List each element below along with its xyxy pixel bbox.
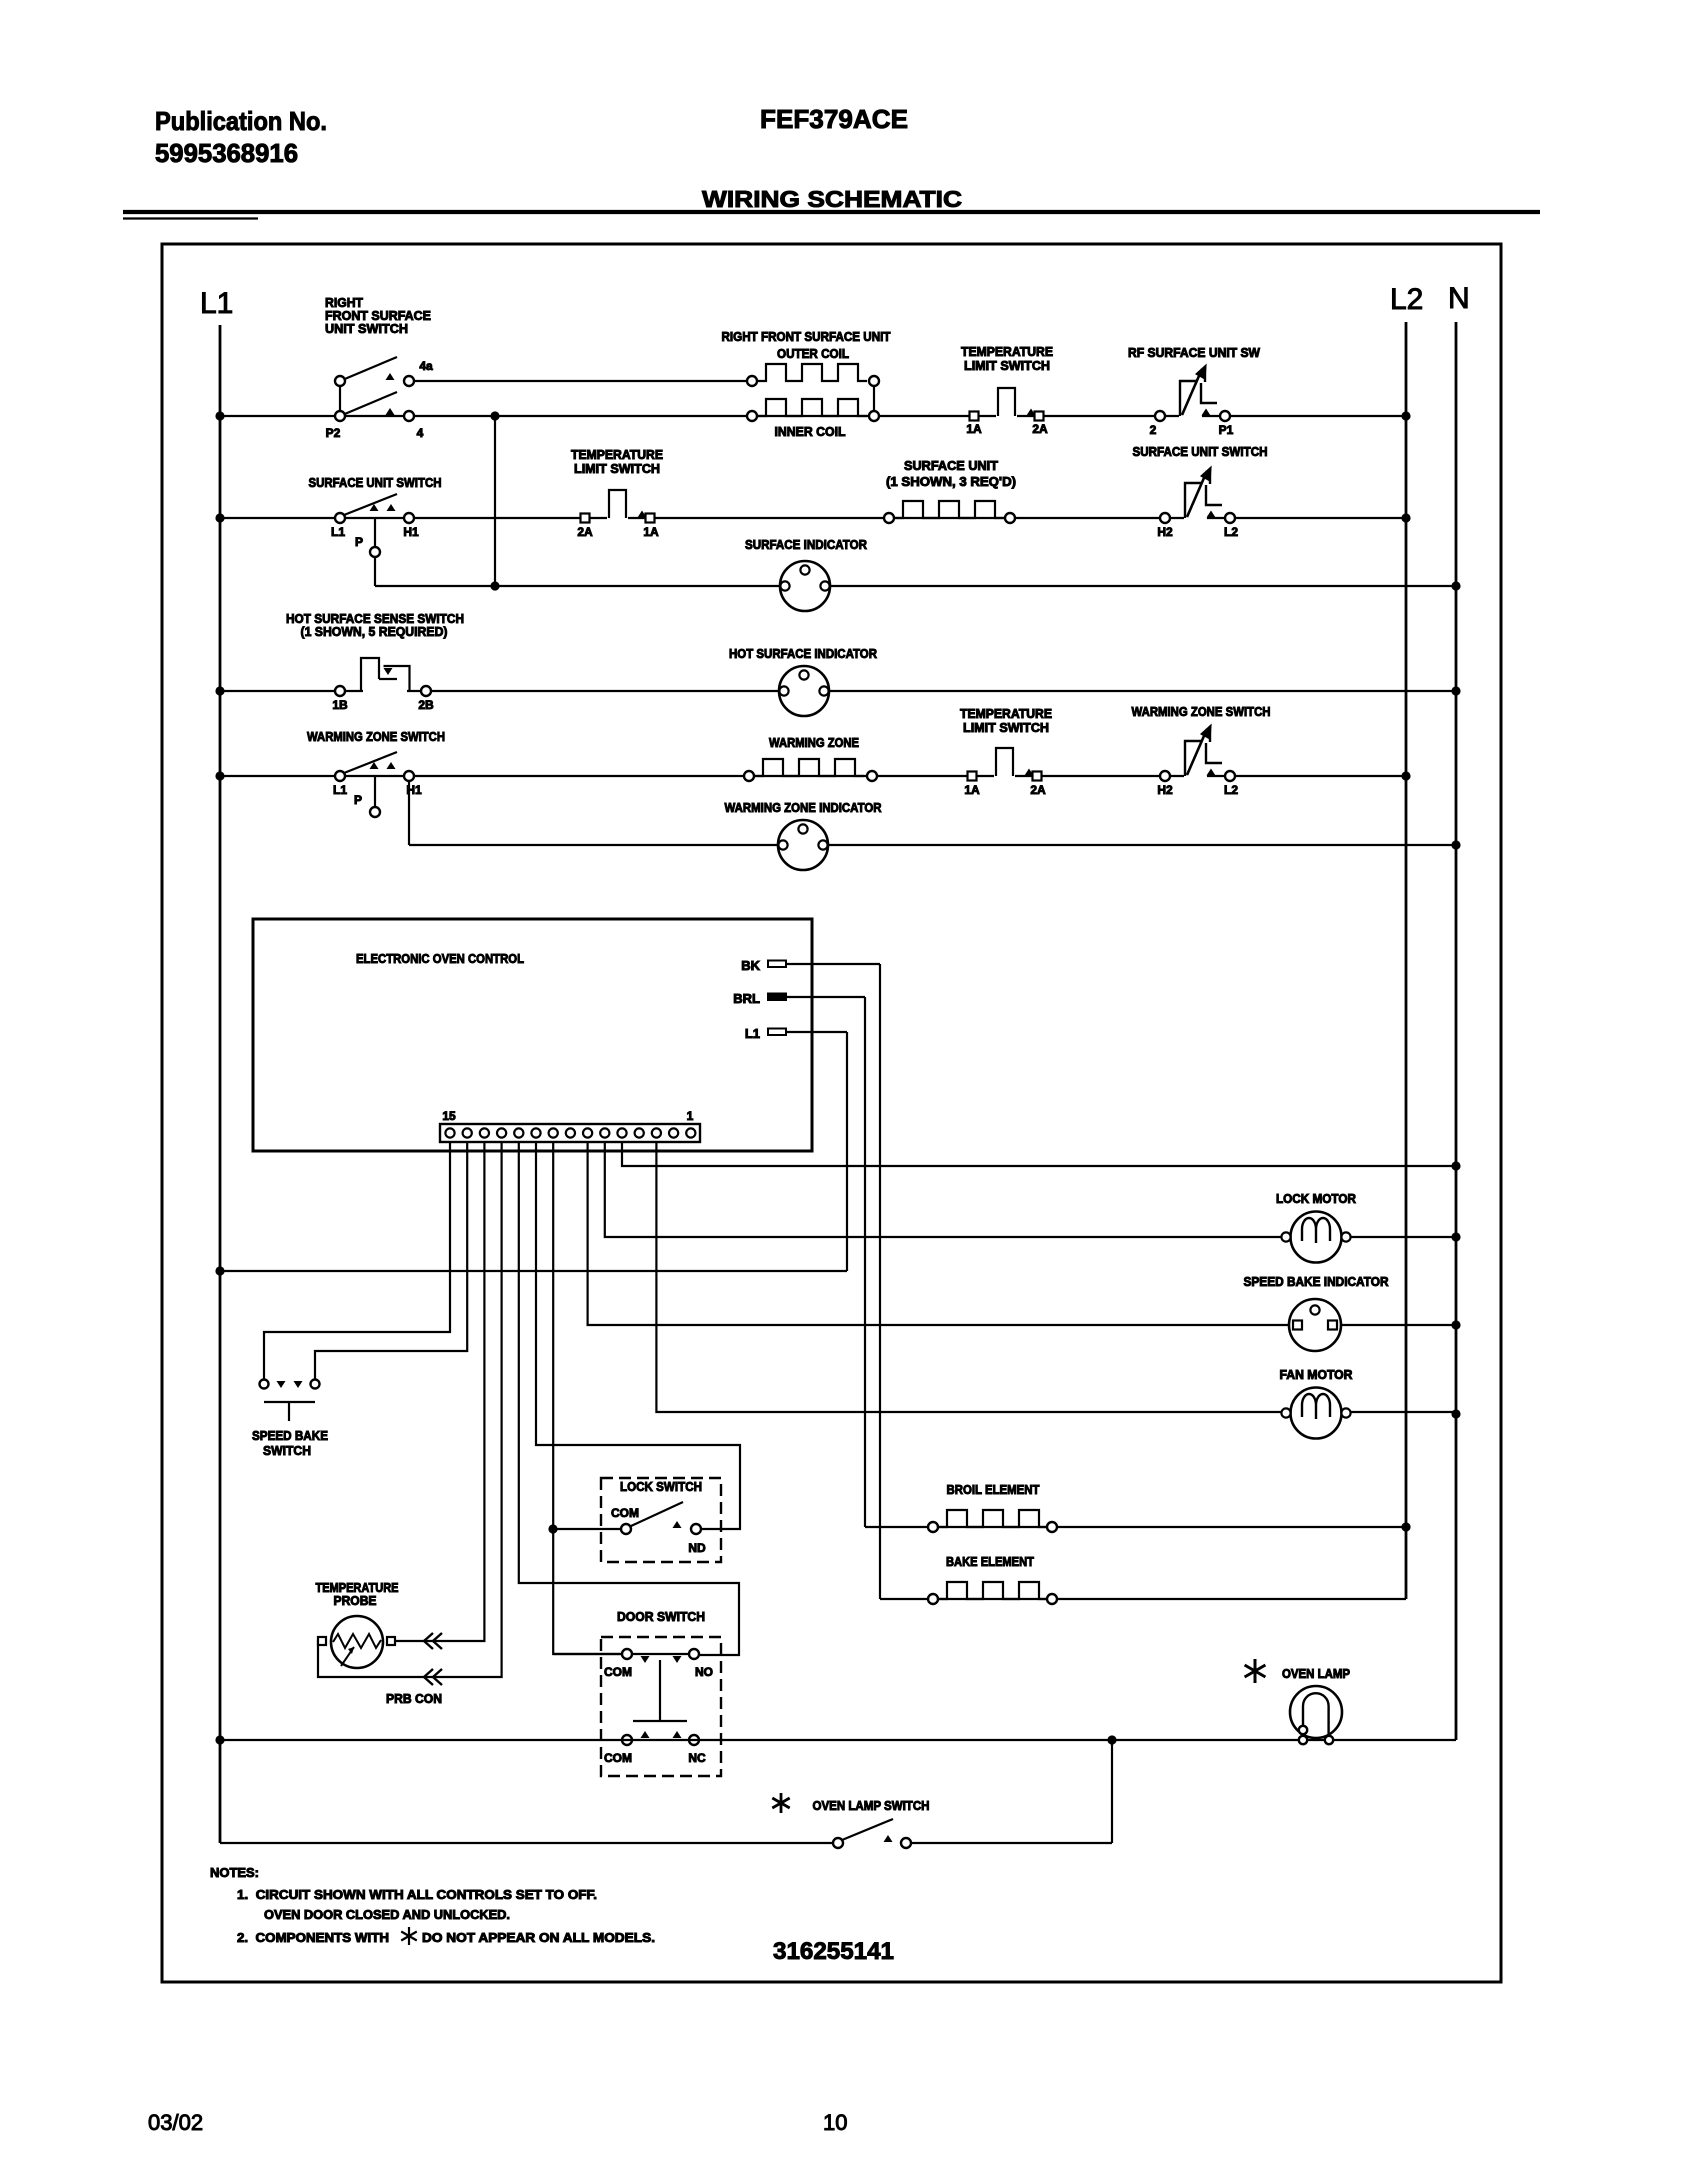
wire pin9 to lock switch COM and door switch COM <box>553 1142 622 1654</box>
svg-text:FAN MOTOR: FAN MOTOR <box>1280 1368 1353 1382</box>
svg-text:L2: L2 <box>1390 283 1423 316</box>
wire outer coil to inner coil right side <box>873 381 875 416</box>
svg-text:2A: 2A <box>1032 422 1048 436</box>
svg-text:L2: L2 <box>1224 783 1238 797</box>
svg-text:OVEN DOOR CLOSED AND UNLOCKED.: OVEN DOOR CLOSED AND UNLOCKED. <box>264 1907 510 1922</box>
junction row3 at L2 <box>1401 513 1410 522</box>
svg-text:2B: 2B <box>418 698 434 712</box>
resistor temperature probe <box>331 1616 383 1668</box>
svg-text:OUTER COIL: OUTER COIL <box>777 347 849 361</box>
heater surface unit coil <box>894 501 1004 518</box>
svg-text:SWITCH: SWITCH <box>263 1443 311 1458</box>
svg-text:1B: 1B <box>332 698 348 712</box>
junction row2 at L2 <box>1401 411 1410 420</box>
svg-text:P: P <box>355 535 363 549</box>
wire row1 4a contact to outer coil <box>409 380 752 382</box>
svg-text:SURFACE UNIT SWITCH: SURFACE UNIT SWITCH <box>309 475 442 490</box>
svg-text:DOOR SWITCH: DOOR SWITCH <box>617 1609 705 1624</box>
node L2 rail <box>1405 322 1408 1599</box>
svg-text:(1 SHOWN, 3 REQ'D): (1 SHOWN, 3 REQ'D) <box>886 475 1016 489</box>
svg-text:L1: L1 <box>333 783 347 797</box>
svg-text:LIMIT SWITCH: LIMIT SWITCH <box>964 359 1050 373</box>
svg-text:L2: L2 <box>1224 525 1238 539</box>
switch oven lamp switch <box>220 1842 833 1844</box>
switch surface unit switch contacts H2 L2 <box>1184 467 1222 521</box>
svg-text:P: P <box>354 793 362 807</box>
svg-text:TEMPERATURE: TEMPERATURE <box>571 448 663 462</box>
wire pin7 to speed bake indicator row <box>588 1142 1456 1325</box>
svg-text:4: 4 <box>417 426 424 440</box>
svg-text:COM: COM <box>611 1506 639 1520</box>
connector chevrons probe leads <box>424 1633 433 1649</box>
svg-text:H2: H2 <box>1157 783 1173 797</box>
svg-text:316255141: 316255141 <box>773 1938 894 1965</box>
motor lock motor <box>1281 1212 1350 1263</box>
svg-text:1A: 1A <box>964 783 980 797</box>
svg-text:NO: NO <box>695 1665 713 1679</box>
svg-text:LIMIT SWITCH: LIMIT SWITCH <box>574 462 660 476</box>
wire L1 terminal to L1 rail <box>786 1031 847 1033</box>
wire bottom row L1 to N oven lamp row <box>220 1739 1456 1741</box>
svg-text:10: 10 <box>823 2110 847 2135</box>
wire surface indicator row from P contact <box>374 557 376 586</box>
header rule <box>123 210 1540 214</box>
svg-text:LIMIT SWITCH: LIMIT SWITCH <box>963 721 1049 735</box>
wire pin12 to temperature probe return loop <box>318 1142 502 1677</box>
svg-text:03/02: 03/02 <box>148 2110 203 2135</box>
svg-text:RF SURFACE UNIT SW: RF SURFACE UNIT SW <box>1128 346 1260 360</box>
svg-text:BK: BK <box>741 958 760 973</box>
svg-text:FEF379ACE: FEF379ACE <box>760 104 908 134</box>
svg-text:2. COMPONENTS WITH: 2. COMPONENTS WITH <box>237 1930 389 1945</box>
svg-text:L1: L1 <box>331 525 345 539</box>
svg-text:TEMPERATURE: TEMPERATURE <box>961 345 1053 359</box>
diagram border frame <box>162 244 1501 1982</box>
svg-text:P2: P2 <box>326 426 341 440</box>
svg-text:SURFACE UNIT: SURFACE UNIT <box>904 459 998 473</box>
wire pin6 to lock motor row <box>605 1142 1456 1237</box>
svg-text:NOTES:: NOTES: <box>210 1865 259 1880</box>
wire row4 L1 to N hot surface row <box>220 690 1456 692</box>
wire pin5 to neutral rail <box>622 1142 1456 1166</box>
svg-text:TEMPERATURE: TEMPERATURE <box>960 707 1052 721</box>
junction row2 to surface indicator feeder <box>490 411 499 420</box>
wire row2 L1 to L2 <box>220 415 1406 417</box>
svg-text:WARMING ZONE SWITCH: WARMING ZONE SWITCH <box>1132 705 1271 719</box>
svg-text:SPEED BAKE: SPEED BAKE <box>252 1428 328 1443</box>
svg-text:5995368916: 5995368916 <box>155 138 298 168</box>
svg-text:SURFACE INDICATOR: SURFACE INDICATOR <box>745 538 867 552</box>
svg-text:COM: COM <box>604 1751 632 1765</box>
switch speed bake switch <box>260 1380 269 1389</box>
svg-text:TEMPERATURE: TEMPERATURE <box>316 1581 399 1595</box>
svg-text:LOCK SWITCH: LOCK SWITCH <box>620 1479 702 1494</box>
svg-text:SPEED BAKE INDICATOR: SPEED BAKE INDICATOR <box>1244 1275 1389 1289</box>
wire pin10 to lock switch NO <box>536 1142 740 1529</box>
junction surface indicator row at N <box>1451 581 1460 590</box>
svg-text:N: N <box>1448 282 1470 315</box>
svg-text:L1: L1 <box>745 1026 760 1041</box>
svg-text:H2: H2 <box>1157 525 1173 539</box>
junction warming zone indicator row at N <box>1451 840 1460 849</box>
door switch mechanical link <box>659 1660 661 1721</box>
svg-text:1: 1 <box>687 1109 694 1123</box>
wire BRL to broil element <box>786 996 865 998</box>
node N rail <box>1455 322 1458 1740</box>
asterisk marker oven lamp <box>1245 1659 1266 1683</box>
lamp oven lamp <box>1290 1686 1342 1738</box>
wire pin3 to fan motor row <box>656 1142 1456 1412</box>
switch RF surface unit sw contacts 2 P1 <box>1179 365 1217 419</box>
junction broil row at L2 <box>1401 1522 1410 1531</box>
heater inner coil <box>757 399 867 416</box>
motor fan motor <box>1281 1388 1350 1439</box>
svg-text:P1: P1 <box>1219 423 1234 437</box>
svg-text:ELECTRONIC OVEN CONTROL: ELECTRONIC OVEN CONTROL <box>356 951 524 966</box>
svg-text:RIGHT FRONT SURFACE UNIT: RIGHT FRONT SURFACE UNIT <box>722 330 891 344</box>
svg-text:1A: 1A <box>643 525 659 539</box>
svg-text:WARMING ZONE INDICATOR: WARMING ZONE INDICATOR <box>725 801 882 815</box>
svg-text:COM: COM <box>604 1665 632 1679</box>
svg-text:NC: NC <box>688 1751 706 1765</box>
svg-text:15: 15 <box>442 1109 456 1123</box>
junction row4 at N <box>1451 686 1460 695</box>
box electronic oven control U1 <box>253 919 812 1151</box>
temperature limit switch row3 contacts 2A 1A <box>607 490 647 521</box>
svg-text:L1: L1 <box>200 287 233 320</box>
svg-text:ND: ND <box>688 1541 706 1555</box>
switch hot surface sense switch 1B 2B <box>363 688 407 695</box>
switch warming zone switch contacts H2 L2 <box>1184 725 1222 779</box>
wire warming zone indicator row from H1 <box>408 781 410 845</box>
svg-text:1. CIRCUIT SHOWN WITH ALL CON: 1. CIRCUIT SHOWN WITH ALL CONTROLS SET T… <box>237 1887 597 1902</box>
svg-text:PROBE: PROBE <box>334 1594 377 1608</box>
wire row3 L1 to L2 <box>220 517 1406 519</box>
lamp speed bake indicator <box>1289 1299 1341 1351</box>
temperature limit switch row2 contacts 1A 2A <box>996 388 1036 419</box>
lamp warming zone indicator <box>778 820 828 870</box>
svg-text:DO NOT APPEAR ON ALL MODELS.: DO NOT APPEAR ON ALL MODELS. <box>422 1930 655 1945</box>
switch lock switch COM NO <box>601 1478 721 1562</box>
wire pin15 to speed bake switch left <box>264 1142 450 1380</box>
lamp hot surface indicator <box>779 666 829 716</box>
svg-text:HOT SURFACE INDICATOR: HOT SURFACE INDICATOR <box>729 647 877 661</box>
switch warming zone switch L1/P/H1 <box>335 771 345 781</box>
lamp surface indicator <box>780 561 830 611</box>
asterisk marker oven lamp switch <box>772 1793 789 1813</box>
svg-text:BRL: BRL <box>733 991 760 1006</box>
wire BK to bake element <box>786 963 880 965</box>
svg-text:OVEN LAMP SWITCH: OVEN LAMP SWITCH <box>813 1799 930 1813</box>
connector strip pins 15 to 1 <box>440 1124 700 1142</box>
svg-text:(1 SHOWN, 5 REQUIRED): (1 SHOWN, 5 REQUIRED) <box>301 624 448 639</box>
svg-text:WARMING ZONE: WARMING ZONE <box>769 736 859 750</box>
switch door switch lower COM NC <box>622 1735 632 1745</box>
svg-text:BAKE ELEMENT: BAKE ELEMENT <box>946 1555 1034 1569</box>
svg-text:SURFACE UNIT SWITCH: SURFACE UNIT SWITCH <box>1133 445 1268 459</box>
switch right front surface unit switch P2/4a/4 <box>339 381 341 416</box>
svg-text:UNIT SWITCH: UNIT SWITCH <box>325 321 408 336</box>
heater outer coil of right front surface unit <box>757 364 867 381</box>
svg-text:H1: H1 <box>403 525 419 539</box>
svg-text:2A: 2A <box>577 525 593 539</box>
wire pin13 to temperature probe <box>392 1142 484 1641</box>
wire pin14 to speed bake switch right <box>315 1142 467 1380</box>
svg-text:LOCK MOTOR: LOCK MOTOR <box>1276 1192 1356 1206</box>
switch door switch upper COM NO <box>601 1637 721 1776</box>
svg-text:Publication No.: Publication No. <box>155 106 327 136</box>
wire pin11 to door switch NO <box>519 1142 739 1655</box>
svg-text:BROIL ELEMENT: BROIL ELEMENT <box>947 1483 1040 1497</box>
wire row5 L1 to L2 warming zone row <box>220 775 1406 777</box>
svg-text:WIRING SCHEMATIC: WIRING SCHEMATIC <box>702 186 962 212</box>
svg-text:WARMING ZONE SWITCH: WARMING ZONE SWITCH <box>307 729 445 744</box>
svg-text:OVEN LAMP: OVEN LAMP <box>1282 1667 1350 1681</box>
node L1 rail <box>219 325 222 1843</box>
svg-text:PRB CON: PRB CON <box>386 1692 442 1706</box>
junction row5 at L2 <box>1401 771 1410 780</box>
heater bake element <box>880 1598 1406 1600</box>
svg-text:2A: 2A <box>1030 783 1046 797</box>
temperature limit switch row5 contacts 1A 2A <box>994 748 1034 779</box>
heater warming zone coil <box>754 759 864 776</box>
heater broil element <box>865 1526 1406 1528</box>
svg-text:4a: 4a <box>419 359 433 373</box>
svg-text:2: 2 <box>1150 423 1157 437</box>
svg-text:INNER COIL: INNER COIL <box>775 425 846 439</box>
switch surface unit switch L1/P/H1 <box>335 513 345 523</box>
svg-text:1A: 1A <box>966 422 982 436</box>
